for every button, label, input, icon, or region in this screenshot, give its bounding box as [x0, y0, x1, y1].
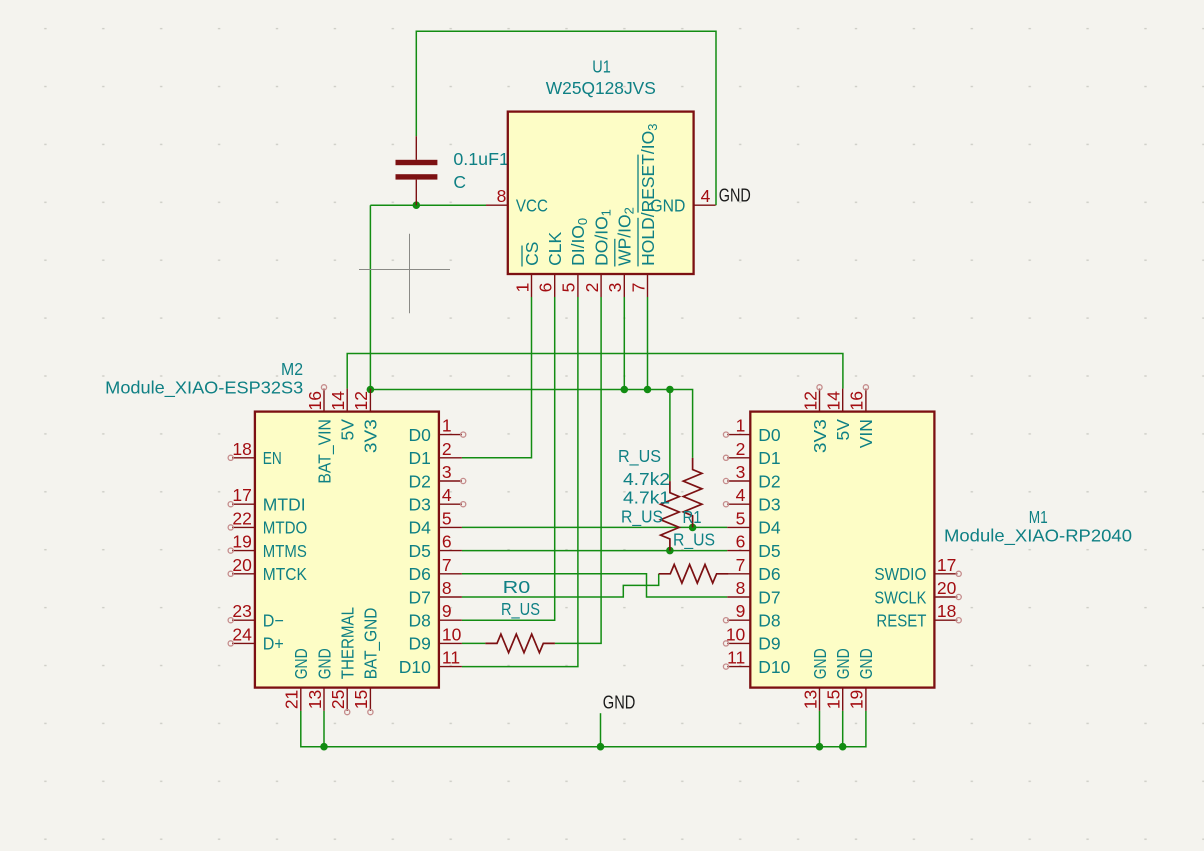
wire: 5V M2 pin 14 to M1 pin 14: [347, 354, 843, 389]
svg-text:3V3: 3V3: [361, 419, 381, 453]
svg-text:GND: GND: [833, 648, 853, 679]
svg-text:EN: EN: [263, 448, 282, 468]
svg-text:BAT_GND: BAT_GND: [361, 608, 382, 680]
svg-text:25: 25: [328, 690, 348, 709]
svg-text:D9: D9: [758, 634, 780, 654]
svg-text:D4: D4: [409, 518, 432, 538]
svg-text:MTMS: MTMS: [263, 541, 307, 561]
svg-text:1: 1: [512, 283, 532, 293]
wire: U1 DI/IO0 to M2 D10: [462, 297, 578, 667]
U1 RESET overline: [637, 155, 639, 213]
svg-text:RESET: RESET: [876, 611, 926, 631]
wire: M2 D9 to resistor R0: [462, 642, 486, 644]
wire: top loop from C1 top to U1 GND pin 4: [416, 31, 716, 205]
junction VCC node at capacitor: [413, 201, 421, 209]
M2 pin 14 5V: [328, 389, 358, 441]
M1 pin 4 D3: [723, 485, 780, 514]
wire: 3V3 horizontal bus to resistor R1: [370, 390, 692, 458]
junction GND bus / GND label: [597, 743, 605, 751]
svg-text:D−: D−: [263, 611, 284, 631]
M2 pin 7 D6: [409, 555, 462, 584]
M1 pin 9 D8: [723, 601, 780, 630]
svg-text:D10: D10: [399, 657, 431, 677]
U1 HOLD overline: [637, 218, 639, 267]
M2 pin 5 D4: [409, 508, 462, 537]
U1 WP overline: [614, 239, 616, 267]
svg-text:BAT_VIN: BAT_VIN: [314, 419, 335, 484]
svg-text:D3: D3: [409, 495, 431, 515]
M1 pin 7 D6: [727, 555, 780, 584]
svg-text:5: 5: [442, 508, 452, 528]
module M1 Module_XIAO-RP2040 body: [750, 412, 934, 688]
svg-text:D6: D6: [758, 564, 780, 584]
svg-text:M2: M2: [281, 359, 303, 379]
M1 pin 13 GND: [800, 648, 830, 711]
svg-text:23: 23: [232, 601, 251, 621]
svg-text:CS: CS: [522, 242, 542, 266]
svg-text:5: 5: [736, 508, 746, 528]
resistor R1 vertical 4.7k: [621, 458, 715, 551]
svg-text:14: 14: [824, 391, 844, 411]
M1 pin 16 VIN: [847, 385, 877, 449]
svg-text:6: 6: [442, 532, 452, 552]
M1 pin 10 D9: [723, 624, 780, 653]
svg-text:8: 8: [497, 186, 507, 206]
wire: M2 D6 to M1 D7 with jog: [462, 574, 727, 597]
svg-text:5V: 5V: [833, 419, 853, 441]
svg-text:17: 17: [232, 485, 251, 505]
junction 3V3 bus / WP wire: [621, 386, 629, 394]
M2 pin 15 BAT_GND: [351, 608, 382, 715]
M2 pin 22 MTDO: [228, 508, 307, 537]
svg-text:R_US: R_US: [618, 446, 661, 467]
svg-text:D8: D8: [409, 611, 431, 631]
svg-text:6: 6: [536, 283, 556, 293]
M2 pin 2 D1: [409, 439, 462, 468]
M1 pin 17 SWDIO: [874, 555, 961, 584]
svg-text:D1: D1: [758, 448, 780, 468]
svg-text:D1: D1: [409, 448, 431, 468]
M2 pin 4 D3: [409, 485, 466, 514]
M2 pin 12 3V3: [351, 389, 381, 454]
svg-text:17: 17: [937, 555, 956, 575]
svg-text:8: 8: [736, 578, 746, 598]
M2 pin 6 D5: [409, 532, 462, 561]
U1 CS overline: [521, 246, 523, 267]
wire: M2 pin 13 GND stub: [323, 711, 325, 747]
svg-text:12: 12: [800, 391, 820, 410]
svg-text:D10: D10: [758, 657, 790, 677]
svg-text:VIN: VIN: [856, 419, 876, 448]
svg-text:24: 24: [232, 624, 252, 644]
M1 pin 14 5V: [824, 389, 854, 441]
U1 pin 4 GND: [650, 186, 715, 216]
svg-text:11: 11: [727, 648, 745, 668]
svg-text:12: 12: [351, 391, 371, 410]
svg-text:GND: GND: [856, 648, 876, 679]
M2 pin 25 THERMAL: [328, 607, 358, 715]
M1 pin 15 GND: [824, 648, 854, 711]
wire: GND label stub: [600, 713, 602, 747]
junction GND bus / M1 pin 15: [839, 743, 847, 751]
svg-text:R_US: R_US: [501, 599, 540, 620]
svg-text:7: 7: [442, 555, 452, 575]
svg-text:2: 2: [582, 283, 602, 293]
svg-text:8: 8: [442, 578, 452, 598]
wire: U1 CLK to M2 D8: [462, 297, 555, 620]
svg-text:3: 3: [736, 462, 746, 482]
svg-text:GND: GND: [810, 648, 830, 679]
svg-text:SWDIO: SWDIO: [874, 564, 926, 584]
U1 pin 8 VCC: [486, 186, 548, 216]
svg-text:18: 18: [232, 439, 251, 459]
svg-text:9: 9: [736, 601, 746, 621]
M1 pin 19 GND: [847, 648, 877, 711]
svg-text:THERMAL: THERMAL: [338, 607, 358, 680]
M2 pin 1 D0: [409, 416, 466, 445]
svg-text:MTDI: MTDI: [263, 495, 306, 515]
wire: GND bus along bottom: [301, 711, 866, 747]
M1 pin 20 SWCLK: [874, 578, 961, 607]
svg-text:SWCLK: SWCLK: [874, 587, 926, 607]
M1 pin 12 3V3: [800, 385, 830, 453]
svg-text:U1: U1: [592, 56, 611, 76]
svg-text:MTCK: MTCK: [263, 564, 307, 584]
U1 pin 1 CS: [512, 242, 542, 297]
svg-text:20: 20: [937, 578, 957, 598]
svg-text:2: 2: [736, 439, 746, 459]
svg-text:R_US: R_US: [621, 506, 663, 527]
svg-text:R0: R0: [503, 577, 531, 597]
M2 pin 19 MTMS: [228, 532, 307, 561]
svg-text:Module_XIAO-ESP32S3: Module_XIAO-ESP32S3: [105, 377, 303, 398]
M2 pin 23 D&#8722;: [228, 601, 284, 630]
svg-text:C: C: [453, 172, 466, 192]
svg-text:MTDO: MTDO: [263, 518, 308, 538]
svg-text:9: 9: [442, 601, 452, 621]
resistor R2 vertical 4.7k: [618, 446, 679, 551]
svg-text:GND: GND: [719, 185, 751, 206]
M2 pin 24 D+: [228, 624, 284, 653]
svg-text:0.1uF1: 0.1uF1: [453, 149, 509, 169]
svg-text:19: 19: [232, 532, 251, 552]
svg-text:7: 7: [736, 555, 746, 575]
wire: U1 DO/IO1 to resistor R0: [555, 297, 601, 643]
svg-text:1: 1: [442, 416, 452, 436]
U1 pin 3 WP/IO2: [605, 207, 637, 297]
resistor R0 horizontal: [485, 577, 555, 653]
svg-text:4.7k2: 4.7k2: [623, 469, 670, 489]
junction R1 bottom on D4 row: [689, 524, 697, 532]
svg-text:M1: M1: [1029, 507, 1048, 527]
svg-text:16: 16: [847, 391, 867, 410]
svg-text:13: 13: [305, 690, 325, 709]
M1 pin 5 D4: [727, 508, 781, 537]
svg-text:3: 3: [605, 283, 625, 293]
wire: U1 WP/IO2 down to 3V3 bus: [623, 297, 625, 390]
svg-text:D9: D9: [409, 634, 431, 654]
svg-text:WP/IO2: WP/IO2: [615, 207, 637, 266]
svg-text:D7: D7: [409, 587, 431, 607]
svg-text:10: 10: [726, 624, 746, 644]
svg-text:D5: D5: [758, 541, 780, 561]
wire: VCC node to U1 pin 8: [370, 204, 486, 206]
svg-text:GND: GND: [603, 691, 636, 712]
junction R2 bottom on D5 row: [666, 547, 674, 555]
svg-text:15: 15: [351, 690, 371, 709]
svg-text:22: 22: [232, 508, 251, 528]
wire: D5 row M2 pin6 to M1 pin6: [462, 550, 727, 552]
origin crosshair: [359, 234, 450, 314]
junction 3V3 at M2 pin 12: [367, 386, 375, 394]
svg-text:D4: D4: [758, 518, 781, 538]
U1 pin 2 DO/IO1: [582, 209, 614, 297]
svg-text:18: 18: [937, 601, 956, 621]
svg-text:10: 10: [442, 624, 462, 644]
U1 pin 5 DI/IO0: [559, 218, 591, 297]
M1 pin 1 D0: [723, 416, 781, 445]
svg-text:GND: GND: [314, 648, 334, 679]
M2 pin 9 D8: [409, 601, 462, 630]
M2 pin 20 MTCK: [228, 555, 307, 584]
svg-text:4: 4: [442, 485, 452, 505]
junction GND bus / M2 pin 13: [320, 743, 328, 751]
wire: 3V3 bus down to resistor R2: [669, 390, 671, 482]
M1 pin 8 D7: [727, 578, 780, 607]
svg-text:15: 15: [824, 690, 844, 709]
M2 pin 21 GND: [282, 648, 312, 711]
resistor R3 horizontal on D6/D7 net: [659, 565, 729, 584]
svg-text:20: 20: [232, 555, 252, 575]
M1 pin 11 D10: [723, 648, 790, 677]
svg-text:4: 4: [701, 186, 711, 206]
svg-text:VCC: VCC: [516, 196, 548, 216]
M1 pin 18 RESET: [876, 601, 961, 630]
svg-text:11: 11: [442, 648, 460, 668]
capacitor C 0.1uF: [396, 136, 509, 205]
wire: VCC node down to M2 pin 12 (3V3): [369, 205, 371, 389]
svg-text:D0: D0: [409, 425, 432, 445]
U1 pin 6 CLK: [536, 232, 566, 297]
svg-text:16: 16: [305, 391, 325, 410]
M2 pin 13 GND: [305, 648, 335, 711]
module M2 Module_XIAO-ESP32S3 body: [255, 412, 439, 688]
wire: U1 CS to M2 D1: [462, 297, 532, 458]
svg-text:D2: D2: [758, 471, 780, 491]
svg-text:14: 14: [328, 391, 348, 411]
M1 pin 2 D1: [723, 439, 780, 468]
M2 pin 16 BAT_VIN: [305, 385, 336, 484]
svg-text:D6: D6: [409, 564, 431, 584]
svg-text:R_US: R_US: [673, 529, 715, 550]
M2 pin 8 D7: [409, 578, 462, 607]
wire: M2 D7 jog up to resistor R3: [462, 574, 659, 597]
wire: D4 row M2 pin5 to M1 pin5: [462, 526, 727, 528]
svg-text:5V: 5V: [338, 419, 358, 441]
junction GND bus / M1 pin 13: [816, 743, 824, 751]
svg-text:6: 6: [736, 532, 746, 552]
svg-text:D+: D+: [263, 634, 284, 654]
svg-text:3: 3: [442, 462, 452, 482]
svg-text:DO/IO1: DO/IO1: [591, 209, 613, 266]
svg-text:Module_XIAO-RP2040: Module_XIAO-RP2040: [944, 525, 1132, 546]
svg-text:R1: R1: [683, 507, 702, 527]
svg-text:4.7k1: 4.7k1: [623, 487, 670, 507]
svg-text:5: 5: [559, 283, 579, 293]
M2 pin 18 EN: [228, 439, 282, 468]
U1 pin 7 HOLD/RESET/IO3: [628, 123, 660, 297]
svg-text:7: 7: [628, 283, 648, 293]
svg-text:D3: D3: [758, 495, 780, 515]
junction 3V3 bus / HOLD wire: [644, 386, 652, 394]
svg-text:2: 2: [442, 439, 452, 459]
svg-text:21: 21: [282, 690, 302, 709]
M2 pin 10 D9: [409, 624, 462, 653]
svg-text:1: 1: [736, 416, 746, 436]
M1 pin 6 D5: [727, 532, 780, 561]
M2 pin 17 MTDI: [228, 485, 305, 514]
wire: U1 HOLD/RESET down to 3V3 bus: [647, 297, 649, 390]
svg-text:HOLD/RESET/IO3: HOLD/RESET/IO3: [638, 123, 660, 265]
wire: M1 pin 15 GND stub: [842, 711, 844, 747]
svg-text:13: 13: [800, 690, 820, 709]
svg-text:D7: D7: [758, 587, 780, 607]
svg-text:4: 4: [736, 485, 746, 505]
svg-text:GND: GND: [291, 648, 311, 679]
svg-text:D8: D8: [758, 611, 780, 631]
svg-text:D5: D5: [409, 541, 431, 561]
svg-text:19: 19: [847, 690, 867, 709]
svg-text:3V3: 3V3: [810, 419, 830, 453]
svg-text:D0: D0: [758, 425, 781, 445]
junction 3V3 bus / R2 top: [666, 386, 674, 394]
M2 pin 3 D2: [409, 462, 466, 491]
svg-text:CLK: CLK: [545, 232, 565, 266]
svg-text:D2: D2: [409, 471, 431, 491]
wire: M1 pin 13 GND stub: [819, 711, 821, 747]
M2 pin 11 D10: [399, 648, 462, 677]
op-amp U1 W25Q128JVS flash body: [508, 112, 694, 274]
M1 pin 3 D2: [723, 462, 780, 491]
svg-text:W25Q128JVS: W25Q128JVS: [546, 78, 656, 98]
